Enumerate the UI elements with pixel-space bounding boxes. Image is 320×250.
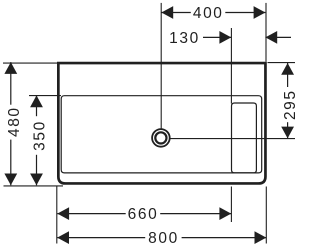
svg-text:295: 295	[282, 89, 299, 120]
svg-text:480: 480	[6, 106, 23, 137]
svg-text:660: 660	[128, 206, 159, 223]
svg-text:130: 130	[169, 30, 200, 47]
svg-text:800: 800	[148, 230, 179, 247]
svg-text:400: 400	[193, 5, 224, 22]
svg-text:350: 350	[32, 120, 49, 151]
